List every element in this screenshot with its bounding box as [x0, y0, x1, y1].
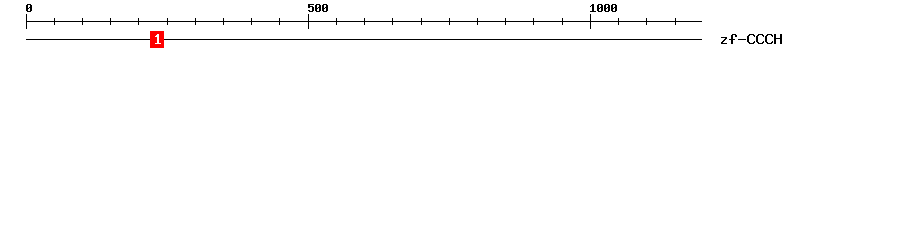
- major tick 1000: [590, 14, 591, 29]
- domain number 1: [155, 34, 161, 44]
- domain box 1 (zf-CCCH match): [150, 31, 164, 48]
- ruler label 500: [308, 4, 328, 12]
- major tick 0: [26, 14, 27, 29]
- ruler label 0: [26, 4, 32, 12]
- protein backbone line: [26, 39, 702, 40]
- ruler axis line: [26, 21, 702, 22]
- major tick 500: [308, 14, 309, 29]
- minor ticks every 50 units: [54, 18, 676, 25]
- domain name label zf-CCCH: [721, 34, 782, 44]
- ruler label 1000: [590, 4, 617, 12]
